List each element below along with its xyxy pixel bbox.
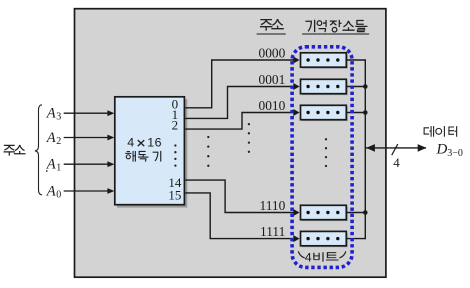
svg-text:3: 3 — [56, 112, 61, 123]
wire output 2 — [185, 109, 299, 129]
brace arc right — [339, 251, 345, 258]
svg-text:0000: 0000 — [259, 46, 286, 61]
svg-text:0001: 0001 — [259, 72, 286, 87]
memory cell 0000 — [301, 53, 348, 69]
ellipsis output wires right — [248, 123, 250, 153]
svg-text:4: 4 — [393, 155, 400, 170]
wire output 0 — [185, 57, 299, 108]
memory cell 1110 — [301, 205, 348, 221]
svg-text:3−0: 3−0 — [447, 148, 463, 159]
wire output 1 — [185, 83, 299, 118]
svg-text:D: D — [436, 141, 448, 157]
pin ellipsis — [174, 144, 176, 166]
junction dot — [363, 210, 368, 215]
wire input A1 — [64, 161, 115, 167]
wire output 14 — [185, 180, 299, 216]
4-bit group outline (dotted) — [292, 47, 352, 268]
node dot below A1 — [46, 170, 48, 172]
decoder U1 title 해독기 — [125, 151, 161, 162]
wire cell 1110 to bus — [346, 212, 365, 214]
header 주소 — [260, 19, 284, 31]
wire cell 0000 to bus — [346, 59, 365, 61]
svg-text:4: 4 — [127, 135, 134, 149]
wire cell 1111 to bus — [346, 238, 365, 240]
memory cell 0001 — [301, 79, 348, 95]
svg-text:A: A — [46, 157, 56, 173]
junction dot — [363, 110, 368, 115]
header 기억장소들 underline — [302, 33, 369, 35]
wire cell 0001 to bus — [346, 86, 365, 88]
svg-text:16: 16 — [147, 135, 162, 149]
decoder U1 shadow — [117, 99, 187, 208]
svg-text:2: 2 — [56, 136, 61, 147]
svg-text:1110: 1110 — [260, 198, 286, 213]
header 기억장소들 — [305, 20, 367, 32]
wire input A3 — [64, 110, 115, 116]
wire cell 0010 to bus — [346, 112, 365, 114]
svg-text:0: 0 — [56, 190, 61, 201]
svg-text:A: A — [46, 130, 56, 146]
label 주소 (address) — [4, 145, 26, 156]
wire input A2 — [64, 135, 115, 141]
data line D3-0 — [366, 144, 426, 152]
svg-text:15: 15 — [168, 188, 181, 203]
brace arc left — [298, 251, 304, 258]
label 데이터 (data) — [424, 126, 457, 137]
input brace — [35, 105, 42, 195]
svg-text:1111: 1111 — [260, 224, 285, 239]
ellipsis memory column — [325, 138, 327, 167]
ellipsis output wires left — [207, 136, 209, 167]
svg-text:1: 1 — [56, 163, 61, 174]
header 주소 underline — [257, 33, 286, 35]
junction dot — [363, 84, 368, 89]
svg-text:4: 4 — [305, 251, 312, 265]
memory cell 0010 — [301, 105, 348, 121]
svg-text:2: 2 — [172, 118, 179, 133]
svg-text:A: A — [46, 183, 56, 199]
svg-text:0010: 0010 — [259, 98, 286, 113]
enclosure box — [75, 9, 386, 278]
memory cell 1111 — [301, 231, 348, 247]
wire output 15 — [185, 193, 299, 242]
label 4비트 — [305, 251, 339, 265]
data bus vertical wire — [364, 59, 366, 239]
decoder U1 4x16 해독기 — [115, 97, 185, 205]
wire input A0 — [64, 188, 115, 194]
svg-text:A: A — [46, 106, 56, 122]
bus width slash — [392, 144, 398, 155]
